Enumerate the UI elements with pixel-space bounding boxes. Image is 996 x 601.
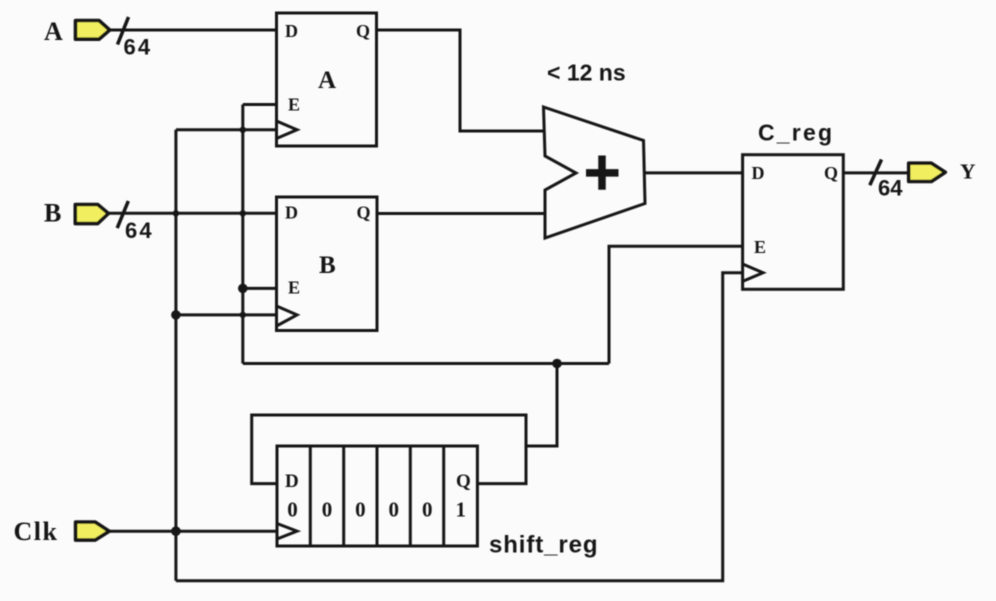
adder U1 (ALU shape) — [544, 107, 646, 238]
crossing bulge (E trunk over B input) — [240, 210, 246, 216]
enable net: vertical trunk — [241, 105, 244, 364]
svg-text:64: 64 — [125, 218, 154, 243]
wire reg B Q to adder — [377, 212, 545, 215]
bus slash A — [118, 17, 129, 45]
input pad B — [75, 205, 108, 224]
svg-text:Q: Q — [357, 203, 371, 223]
junction dot (E net at reg B) — [238, 284, 248, 294]
svg-text:Y: Y — [960, 160, 976, 184]
wire to reg B E — [243, 287, 277, 290]
input pad Clk — [76, 522, 110, 540]
svg-text:0: 0 — [422, 498, 433, 522]
svg-text:Q: Q — [356, 21, 370, 41]
svg-text:E: E — [754, 237, 766, 257]
svg-text:1: 1 — [456, 498, 467, 522]
svg-text:< 12 ns: < 12 ns — [547, 60, 626, 86]
wire to reg A clock — [176, 128, 277, 131]
svg-text:Clk: Clk — [14, 517, 59, 546]
wire to reg A E — [243, 103, 277, 106]
shift_reg feedback loop Q to D — [252, 415, 526, 484]
svg-text:0: 0 — [389, 498, 400, 522]
input pad A — [76, 21, 110, 40]
wire Clk input — [109, 530, 278, 533]
enable net: horizontal run — [243, 362, 609, 365]
clock wedge (shift_reg) — [277, 524, 297, 540]
crossing bulge (E trunk over B clock wire) — [240, 312, 246, 318]
register C_reg — [743, 155, 844, 290]
wire B input — [108, 212, 277, 215]
cell divider 3 — [376, 446, 379, 546]
enable net: up to C_reg E — [609, 246, 743, 363]
svg-text:B: B — [319, 252, 336, 279]
svg-text:0: 0 — [355, 498, 366, 522]
svg-text:0: 0 — [322, 498, 333, 522]
svg-text:0: 0 — [287, 498, 298, 522]
svg-text:C_reg: C_reg — [758, 120, 834, 146]
bus slash B — [117, 201, 128, 228]
svg-text:D: D — [285, 471, 299, 492]
wire tap down to shift_reg loop — [525, 364, 557, 447]
svg-text:E: E — [288, 95, 300, 115]
svg-text:64: 64 — [878, 176, 903, 201]
cell divider 2 — [342, 446, 345, 546]
bus slash Y — [870, 160, 882, 186]
clock wedge (reg B) — [277, 306, 298, 326]
plus symbol — [586, 156, 619, 190]
register B — [277, 197, 378, 331]
output pad Y — [909, 163, 946, 181]
clock wedge (reg A) — [277, 121, 298, 139]
wire C_reg Q output — [843, 171, 909, 174]
svg-text:Q: Q — [824, 163, 838, 183]
wire reg A Q to adder (right, down, right) — [377, 30, 544, 131]
junction dot (clk input line) — [171, 526, 181, 536]
clock net: vertical trunk — [174, 130, 177, 581]
crossing bulge (clk trunk over B input) — [173, 210, 179, 216]
junction dot (E net tap) — [552, 359, 562, 369]
svg-text:D: D — [752, 163, 765, 183]
svg-text:D: D — [285, 21, 298, 41]
svg-text:E: E — [288, 278, 300, 298]
clock wedge (C_reg) — [743, 264, 763, 281]
shift_reg box — [277, 446, 477, 546]
cell divider 5 — [442, 446, 445, 546]
svg-text:shift_reg: shift_reg — [489, 532, 598, 559]
svg-text:Q: Q — [456, 471, 471, 492]
cell divider 4 — [409, 446, 412, 546]
junction dot (clk at reg B wedge) — [171, 310, 181, 320]
crossing bulge (E trunk over A clock wire) — [240, 127, 246, 133]
register A — [277, 13, 377, 146]
svg-text:64: 64 — [124, 35, 153, 60]
svg-text:D: D — [285, 203, 298, 223]
cell divider 1 — [309, 446, 312, 546]
wire A input — [109, 29, 277, 32]
wire adder output to C_reg D — [645, 171, 743, 174]
svg-text:B: B — [44, 199, 61, 228]
clock net: bottom run to C_reg — [176, 273, 743, 581]
wire to reg B clock — [176, 313, 277, 316]
svg-text:A: A — [318, 67, 336, 94]
svg-text:A: A — [44, 17, 63, 46]
